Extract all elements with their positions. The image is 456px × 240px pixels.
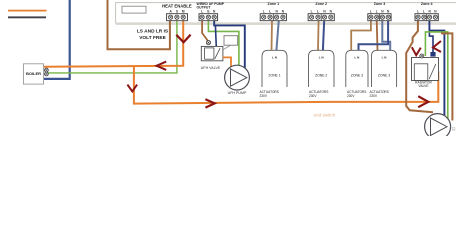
- terminal block ZONE 2: [308, 14, 334, 21]
- svg-text:L: L: [376, 10, 378, 14]
- svg-text:HEAT ENABLE: HEAT ENABLE: [162, 4, 192, 9]
- terminal block ZONE 4: [415, 14, 438, 21]
- legend black line: [8, 16, 46, 18]
- wire brown zone4 live to radiator valve and pump: [406, 20, 433, 112]
- wire green heat-enable earth: [47, 20, 177, 73]
- svg-text:UFH VALVE: UFH VALVE: [201, 66, 221, 70]
- svg-text:230V: 230V: [347, 94, 355, 98]
- svg-text:LS AND LR IS: LS AND LR IS: [137, 29, 169, 35]
- wire brown zone3 L2: [376, 20, 379, 50]
- arrow left to boiler: [157, 62, 167, 70]
- wire blue mains neutral: [44, 0, 70, 79]
- wire navy zone4 neutral to radiator pump: [429, 20, 444, 116]
- svg-text:Zone 2: Zone 2: [315, 2, 327, 6]
- wire navy stub to radiator valve switch: [429, 31, 433, 53]
- wire brown pump-output live to UFH valve: [202, 20, 208, 44]
- arrow down on end-switch riser: [127, 85, 137, 92]
- arrow down on orange heat wire: [176, 35, 190, 43]
- wire navy zone3 N1: [382, 20, 390, 50]
- svg-text:ZONE 3: ZONE 3: [351, 74, 363, 78]
- terminal block HEAT ENABLE: [167, 14, 188, 21]
- wiring centre box U1: [116, 3, 456, 25]
- radiator valve terminal 1: [420, 54, 424, 58]
- UFH valve end-switch box: [224, 36, 238, 46]
- svg-text:UFH PUMP: UFH PUMP: [228, 91, 247, 95]
- svg-text:E: E: [207, 10, 209, 14]
- arrow down at radiator valve left: [412, 47, 421, 55]
- boiler terminal 1: [45, 68, 49, 72]
- svg-text:VOLT FREE: VOLT FREE: [139, 35, 166, 41]
- svg-text:L: L: [311, 10, 313, 14]
- wire orange end-switch branch: [134, 66, 438, 104]
- wire navy stub to UFH valve switch: [215, 25, 216, 49]
- radiator valve neutral connector: [430, 52, 435, 57]
- svg-text:L N: L N: [382, 56, 387, 60]
- boiler: [24, 64, 44, 84]
- wire brown zone2: [317, 20, 320, 50]
- wire brown zone1: [271, 20, 274, 50]
- legend orange line: [8, 10, 47, 12]
- svg-text:end switch: end switch: [314, 113, 336, 118]
- radiator valve U3: [412, 58, 439, 81]
- wire brown radiator pump live: [441, 33, 452, 120]
- svg-text:L N: L N: [355, 56, 360, 60]
- arrow right on end-switch line: [205, 99, 214, 107]
- display window rectangle: [122, 6, 146, 13]
- boiler terminal 2: [45, 72, 49, 76]
- svg-text:VALVE: VALVE: [418, 84, 429, 88]
- svg-text:L: L: [317, 10, 319, 14]
- svg-text:L: L: [263, 10, 265, 14]
- svg-text:L N: L N: [319, 56, 324, 60]
- arrow down-left at radiator valve right: [433, 41, 441, 52]
- svg-text:L: L: [417, 10, 419, 14]
- wire navy pump-output neutral to UFH pump: [214, 20, 245, 68]
- wire orange UFH valve to pump: [223, 57, 231, 67]
- terminal block WIRED UF PUMP OUTPUT: [199, 14, 218, 21]
- svg-text:ZONE 3: ZONE 3: [378, 74, 390, 78]
- svg-text:L: L: [423, 10, 425, 14]
- actuator zone 3a: [346, 50, 368, 87]
- wire slate zone1 neutral: [276, 20, 278, 50]
- arrow right at radiator pump: [418, 96, 428, 107]
- svg-text:Zone 3: Zone 3: [374, 2, 386, 6]
- terminal block ZONE 1: [260, 14, 286, 21]
- wire brown mains feed: [108, 0, 170, 49]
- svg-text:M: M: [182, 10, 185, 14]
- svg-text:L N: L N: [272, 56, 277, 60]
- svg-text:BOILER: BOILER: [26, 71, 41, 76]
- svg-text:230V: 230V: [370, 94, 378, 98]
- wire brown zone3 L1: [351, 20, 371, 50]
- actuator zone 1: [262, 50, 287, 87]
- wire green pump-output earth to UFH pump: [208, 20, 239, 66]
- svg-text:ZONE 1: ZONE 1: [268, 74, 280, 78]
- wire navy zone2 neutral: [323, 20, 324, 50]
- actuator zone 2: [309, 50, 335, 87]
- UFH valve terminal: [206, 41, 210, 45]
- UFH pump P1: [225, 65, 250, 90]
- wire navy zone3 N2: [359, 20, 389, 50]
- wire orange heat-enable to boiler: [44, 20, 183, 67]
- svg-text:Zone 1: Zone 1: [268, 2, 280, 6]
- svg-text:S: S: [176, 10, 178, 14]
- terminal block ZONE 3: [368, 14, 391, 21]
- svg-text:R: R: [452, 127, 456, 133]
- UFH valve U2: [201, 46, 230, 61]
- svg-text:Zone 4: Zone 4: [421, 2, 433, 6]
- svg-text:230V: 230V: [260, 94, 268, 98]
- svg-text:230V: 230V: [309, 94, 317, 98]
- svg-text:ZONE 2: ZONE 2: [315, 74, 327, 78]
- svg-text:L: L: [370, 10, 372, 14]
- radiator pump P2: [425, 114, 451, 140]
- svg-text:L: L: [269, 10, 271, 14]
- actuator zone 3b: [372, 50, 397, 87]
- wire green radiator valve earth: [425, 32, 447, 119]
- svg-text:L: L: [201, 10, 203, 14]
